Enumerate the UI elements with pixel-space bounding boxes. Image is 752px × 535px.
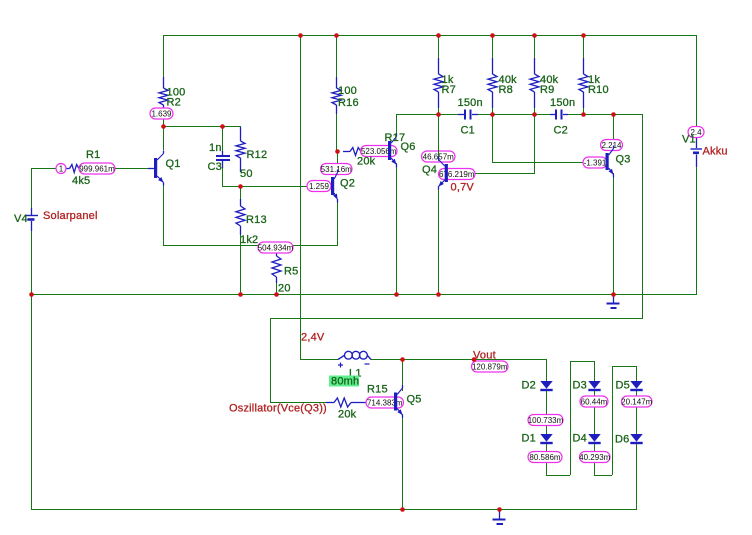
transistor Q6: [388, 134, 397, 168]
transistor Q3: [606, 146, 614, 178]
junction node 2: [334, 33, 339, 38]
wire node row y114: [396, 114, 642, 116]
wire Q2 emitter down: [337, 199, 339, 245]
current bubble 60.44m on D3: [580, 396, 608, 407]
svg-text:Solarpanel: Solarpanel: [43, 210, 98, 222]
current bubble 531.16m on Q2 collector: [321, 164, 353, 175]
svg-text:R13: R13: [246, 214, 267, 226]
junction node 14: [581, 112, 586, 117]
transistor Q1: [148, 151, 164, 186]
current bubble 714.383m on R15: [366, 397, 404, 408]
battery V4 Solarpanel: [25, 208, 38, 231]
diode D4: [588, 434, 600, 444]
svg-text:R10: R10: [588, 84, 609, 96]
wire diode chain 2: [594, 361, 636, 476]
wire L1 row left: [300, 359, 338, 361]
junction node 4: [490, 33, 495, 38]
svg-text:R7: R7: [442, 84, 456, 96]
svg-text:Q2: Q2: [340, 178, 355, 190]
wire Q4 collector vertical: [438, 114, 440, 161]
current bubble 504.934m on R5: [258, 242, 294, 253]
inductor L1: [338, 351, 371, 367]
svg-text:Q1: Q1: [166, 158, 181, 170]
current bubble 80.586m on D1: [528, 452, 562, 463]
svg-text:R8: R8: [499, 84, 513, 96]
svg-text:20: 20: [278, 283, 291, 295]
svg-text:D6: D6: [615, 434, 629, 446]
wire Q3 emitter to ground rail: [613, 173, 615, 294]
svg-text:676.219m: 676.219m: [439, 170, 475, 179]
resistor R8: [488, 58, 497, 108]
wire Q3 base row y162: [492, 162, 583, 164]
svg-text:Oszillator(Vce(Q3)): Oszillator(Vce(Q3)): [229, 403, 327, 415]
junction node 13: [532, 112, 537, 117]
svg-text:D4: D4: [573, 433, 587, 445]
svg-text:1n: 1n: [209, 142, 222, 154]
diode D2: [540, 381, 552, 391]
wire V1 bottom to ground rail: [696, 167, 698, 294]
svg-text:Akku: Akku: [703, 146, 728, 158]
capacitor C3: [216, 151, 230, 168]
current bubble 20.147m on D5: [621, 396, 652, 407]
diode D1: [540, 434, 552, 444]
current bubble 46.657m on Q4 collector: [422, 151, 456, 162]
wire R7 leads: [438, 35, 440, 114]
wire Q4 base row y174: [448, 173, 535, 175]
svg-text:504.934m: 504.934m: [258, 244, 294, 253]
wire Q6 collector vertical: [396, 114, 398, 134]
wire R2 bottom to node: [163, 119, 165, 126]
resistor R9: [530, 58, 539, 108]
wire V+ top rail: [163, 35, 696, 37]
wire L1 row right: [371, 359, 403, 361]
wire cross-couple x534 down: [534, 114, 536, 174]
junction node 16: [29, 292, 34, 297]
svg-text:R2: R2: [167, 97, 181, 109]
junction node 21: [611, 292, 616, 297]
diode D5: [630, 381, 642, 391]
wire Q1 collector: [163, 126, 165, 150]
junction node 15: [611, 112, 616, 117]
svg-text:60.44m: 60.44m: [581, 398, 608, 407]
wire C3 top lead: [222, 126, 224, 151]
junction node 24: [400, 507, 405, 512]
svg-text:100.733m: 100.733m: [528, 416, 564, 425]
voltage pin bubble 1 on R1: [56, 164, 66, 174]
diode D3: [588, 381, 600, 391]
wire R16 bottom lead: [336, 113, 338, 151]
svg-text:R15: R15: [367, 384, 388, 396]
resistor R17: [343, 148, 361, 156]
svg-text:80mh: 80mh: [331, 376, 359, 388]
resistor R10: [579, 58, 588, 108]
svg-text:20.147m: 20.147m: [621, 398, 652, 407]
junction node 6: [581, 33, 586, 38]
junction node 10: [335, 149, 340, 154]
resistor R16: [332, 77, 341, 114]
wire oscillator top y318: [270, 318, 643, 320]
junction node 9: [238, 184, 243, 189]
svg-text:1.639: 1.639: [151, 110, 172, 119]
svg-text:Q6: Q6: [401, 141, 416, 153]
svg-text:R12: R12: [247, 149, 268, 161]
resistor R15: [326, 398, 366, 407]
wire bottom rail y509: [31, 509, 637, 511]
svg-text:80.586m: 80.586m: [529, 453, 560, 462]
resistor R5: [272, 252, 281, 283]
svg-text:1: 1: [59, 165, 64, 174]
svg-text:20k: 20k: [357, 156, 376, 168]
wire node row y126: [163, 126, 241, 128]
svg-text:2,4V: 2,4V: [301, 332, 325, 344]
junction node 8: [220, 124, 225, 129]
current bubble 120.879m at Vout: [472, 361, 509, 372]
svg-text:120.879m: 120.879m: [472, 363, 508, 372]
junction node 19: [394, 292, 399, 297]
wire R8 leads: [492, 35, 494, 114]
wire V+ drop x300 to oscillator: [300, 35, 302, 360]
svg-text:40.293m: 40.293m: [579, 453, 610, 462]
wire R16 top lead: [336, 35, 338, 77]
svg-text:V4: V4: [14, 213, 28, 225]
battery V1 Akku: [691, 138, 703, 167]
junction node 1: [298, 33, 303, 38]
svg-text:714.383m: 714.383m: [367, 399, 403, 408]
L1 value highlight 80mh: [329, 376, 359, 388]
wire R1 row: [31, 168, 148, 170]
current bubble 523.056m on R17: [361, 146, 398, 157]
wire Q3 collector vertical: [613, 114, 615, 151]
svg-text:C2: C2: [554, 125, 568, 137]
voltage bubble 1.639 on R2: [150, 108, 173, 119]
svg-text:V1: V1: [682, 134, 696, 146]
wire Q5 emitter to bottom rail: [402, 414, 404, 510]
wire R9 leads: [534, 35, 536, 114]
wire Vout row y359: [403, 359, 546, 361]
resistor R1: [66, 165, 79, 173]
voltage bubble 1.259 on Q2 base: [307, 181, 331, 192]
current bubble 999.961m on R1: [79, 163, 115, 174]
svg-text:Vout: Vout: [473, 350, 496, 362]
wire R2 top lead: [163, 35, 165, 77]
svg-text:R5: R5: [284, 266, 298, 278]
resistor R2: [159, 77, 168, 108]
junction node 25: [497, 507, 502, 512]
current bubble 100.733m on D2: [528, 415, 564, 426]
resistor R7: [434, 58, 443, 108]
capacitor C2: [550, 110, 568, 120]
svg-text:1k2: 1k2: [240, 234, 258, 246]
svg-text:D3: D3: [573, 380, 587, 392]
wire Q6 emitter to ground rail: [396, 163, 398, 294]
junction node 12: [490, 112, 495, 117]
wire V1 top lead: [696, 35, 698, 127]
resistor R12: [236, 127, 245, 172]
junction node 11: [436, 112, 441, 117]
junction node 23: [472, 357, 477, 362]
current bubble 40.293m on D4: [579, 452, 610, 463]
wire Q5 collector vertical: [402, 360, 404, 391]
wire V4 bottom long vertical: [31, 231, 33, 510]
ground bottom: [493, 510, 506, 524]
svg-text:C3: C3: [208, 161, 222, 173]
voltage bubble 2.214 on Q3 collector: [601, 140, 623, 151]
svg-text:D1: D1: [522, 433, 536, 445]
wire V4 top lead: [31, 168, 33, 208]
svg-text:20k: 20k: [338, 409, 357, 421]
wire diode chain 1: [546, 359, 594, 476]
transistor Q2: [331, 170, 338, 203]
wire C3 bottom lead: [222, 161, 224, 186]
transistor Q4: [439, 157, 448, 190]
junction node 5: [532, 33, 537, 38]
svg-text:0,7V: 0,7V: [451, 182, 475, 194]
svg-text:150n: 150n: [550, 97, 575, 109]
wire Q2 collector vertical: [337, 151, 339, 173]
svg-text:C1: C1: [461, 125, 475, 137]
svg-text:531.16m: 531.16m: [321, 165, 352, 174]
svg-text:R9: R9: [540, 84, 554, 96]
wire oscillator base row y402: [270, 402, 326, 404]
junction node 3: [436, 33, 441, 38]
wire diode chain 3: [636, 366, 638, 510]
svg-text:50: 50: [240, 168, 253, 180]
wire emitter row y245: [163, 245, 338, 247]
wire y186 row to Q2 base: [240, 186, 307, 188]
junction node 18: [274, 292, 279, 297]
svg-text:-1.391: -1.391: [584, 159, 607, 168]
svg-text:Q5: Q5: [407, 394, 422, 406]
transistor Q5: [394, 385, 403, 418]
wire ground rail y294: [31, 294, 697, 296]
capacitor C1: [458, 110, 478, 120]
wire R13 top lead: [240, 186, 242, 199]
wire R10 leads: [583, 35, 585, 114]
wire cross-couple x492 down: [492, 114, 494, 162]
ground right: [607, 294, 620, 308]
svg-text:999.961m: 999.961m: [79, 165, 115, 174]
svg-text:R16: R16: [338, 97, 359, 109]
junction node 17: [238, 292, 243, 297]
svg-text:D5: D5: [616, 380, 630, 392]
svg-text:R1: R1: [86, 149, 100, 161]
svg-text:D2: D2: [522, 380, 536, 392]
wire R5 bottom lead: [276, 283, 278, 294]
junction node 20: [436, 292, 441, 297]
wire R13 bottom to ground rail: [240, 235, 242, 294]
wire Q4 emitter to ground rail: [438, 186, 440, 294]
voltage bubble 2.4 on V1: [688, 127, 704, 138]
junction node 7: [161, 124, 166, 129]
svg-text:2.214: 2.214: [601, 141, 622, 150]
svg-text:Q3: Q3: [616, 154, 631, 166]
resistor R13: [236, 199, 245, 235]
junction node 22: [400, 357, 405, 362]
svg-text:150n: 150n: [458, 97, 483, 109]
current bubble 676.219m on Q4 base: [439, 169, 476, 180]
wire Q1 emitter down: [163, 184, 165, 245]
svg-text:1.259: 1.259: [309, 182, 330, 191]
diode D6: [630, 434, 642, 444]
wire C3 to R13 row: [222, 186, 241, 188]
svg-text:100: 100: [338, 85, 357, 97]
svg-text:Q4: Q4: [422, 164, 437, 176]
wire oscillator sense x642: [642, 114, 644, 318]
wire oscillator left x270: [270, 318, 272, 402]
svg-text:4k5: 4k5: [72, 175, 90, 187]
voltage bubble -1.391 on Q3 base: [583, 157, 607, 168]
